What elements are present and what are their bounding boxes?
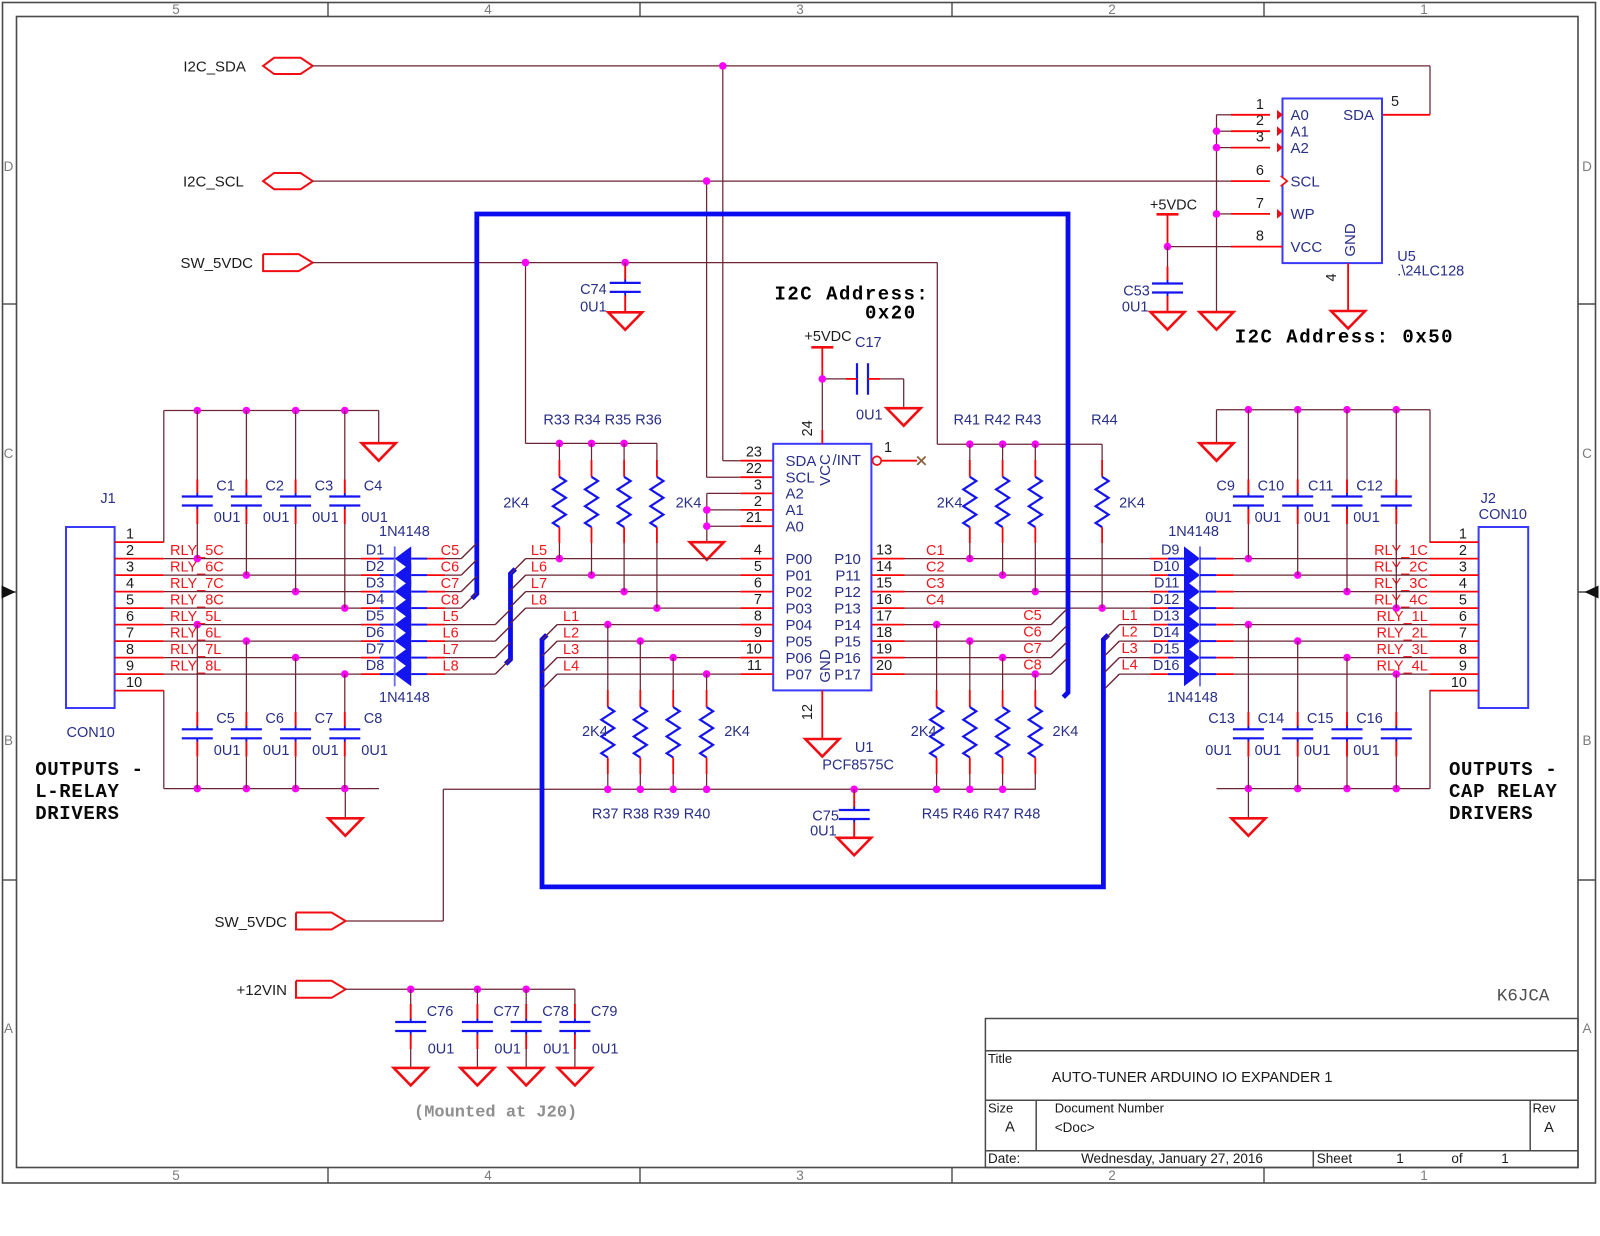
svg-text:9: 9 xyxy=(754,625,762,641)
ground C77 xyxy=(460,1068,494,1086)
svg-text:3: 3 xyxy=(126,560,134,576)
svg-text:D2: D2 xyxy=(366,559,385,575)
svg-text:P12: P12 xyxy=(834,584,861,601)
resistor R40 2K4 xyxy=(700,674,713,789)
svg-text:2K4: 2K4 xyxy=(1053,724,1079,740)
wire net L1 (bus to diode D13) xyxy=(1105,625,1150,640)
svg-text:C: C xyxy=(1582,446,1592,461)
svg-text:0U1: 0U1 xyxy=(263,743,290,759)
wire net RLY_2C row (diode D10 to J2 pin 3) xyxy=(1234,571,1479,579)
svg-text:C3: C3 xyxy=(315,478,334,494)
svg-text:RLY_3C: RLY_3C xyxy=(1374,576,1428,592)
svg-text:3: 3 xyxy=(796,2,804,17)
wire net RLY_3C row (diode D11 to J2 pin 4) xyxy=(1234,588,1479,596)
resistor R47 2K4 xyxy=(996,658,1009,790)
svg-text:6: 6 xyxy=(1256,163,1264,179)
svg-text:0U1: 0U1 xyxy=(1304,510,1331,526)
svg-text:0U1: 0U1 xyxy=(312,743,339,759)
svg-text:14: 14 xyxy=(876,559,892,575)
svg-text:18: 18 xyxy=(876,625,892,641)
op-amp U5 24LC128 EEPROM body xyxy=(1283,99,1383,264)
ground C74 xyxy=(608,312,642,330)
svg-text:L1: L1 xyxy=(563,609,579,625)
net label L7 (chip side) xyxy=(531,576,547,592)
wire net L3 (bus to U1 P06) xyxy=(542,654,773,673)
label D10 xyxy=(1153,559,1180,575)
svg-text:C: C xyxy=(4,446,14,461)
svg-text:CAP RELAY: CAP RELAY xyxy=(1449,781,1557,803)
svg-text:/INT: /INT xyxy=(833,452,861,469)
svg-text:3: 3 xyxy=(1459,560,1467,576)
svg-text:0U1: 0U1 xyxy=(312,510,339,526)
svg-text:4: 4 xyxy=(1324,273,1340,281)
svg-text:P16: P16 xyxy=(834,650,861,667)
svg-text:3: 3 xyxy=(754,477,762,493)
svg-text:C5: C5 xyxy=(216,711,235,727)
svg-text:C17: C17 xyxy=(855,335,882,351)
net label RLY_1C xyxy=(1374,543,1428,559)
svg-text:C12: C12 xyxy=(1356,478,1383,494)
svg-text:0U1: 0U1 xyxy=(1205,743,1232,759)
svg-text:0U1: 0U1 xyxy=(1353,743,1380,759)
capacitor C6 xyxy=(231,641,290,789)
svg-text:L8: L8 xyxy=(443,658,459,674)
resistor R38 2K4 xyxy=(634,641,647,789)
svg-text:A1: A1 xyxy=(1291,123,1309,140)
U5 GND pin 4 lead xyxy=(1347,263,1349,311)
svg-text:10: 10 xyxy=(126,675,142,691)
svg-text:1N4148: 1N4148 xyxy=(379,690,430,706)
svg-text:+12VIN: +12VIN xyxy=(237,982,287,999)
svg-text:22: 22 xyxy=(746,461,762,477)
svg-text:DRIVERS: DRIVERS xyxy=(1449,803,1533,825)
svg-text:Rev: Rev xyxy=(1533,1101,1557,1116)
svg-text:5: 5 xyxy=(754,559,762,575)
connector J1 CON10 body xyxy=(66,527,115,708)
label D12 xyxy=(1153,592,1180,608)
label D11 xyxy=(1154,576,1180,592)
label 1N4148 (right bottom) xyxy=(1167,690,1218,706)
diode D12 1N4148 xyxy=(1150,596,1234,620)
svg-text:L3: L3 xyxy=(563,642,579,658)
net label L8 (left) xyxy=(443,658,459,674)
zone column numbers top xyxy=(172,2,1428,17)
svg-text:1N4148: 1N4148 xyxy=(1168,524,1219,540)
wire net RLY_4C row (diode D12 to J2 pin 5) xyxy=(1234,604,1479,612)
svg-text:D16: D16 xyxy=(1153,658,1180,674)
svg-text:C7: C7 xyxy=(315,711,334,727)
ground C75 xyxy=(837,838,871,856)
wire net L4 (bus to diode D16) xyxy=(1105,674,1150,689)
label D13 xyxy=(1153,609,1180,625)
svg-text:A0: A0 xyxy=(786,518,804,535)
port I2C_SCL (bidirectional) xyxy=(263,173,313,189)
svg-text:1: 1 xyxy=(1501,1151,1509,1166)
svg-text:Size: Size xyxy=(988,1101,1013,1116)
resistor R37 2K4 xyxy=(601,625,614,790)
svg-text:7: 7 xyxy=(1256,196,1264,212)
svg-text:0U1: 0U1 xyxy=(214,743,241,759)
svg-text:C77: C77 xyxy=(493,1004,520,1020)
svg-text:24: 24 xyxy=(800,420,816,436)
svg-text:SDA: SDA xyxy=(786,453,817,470)
svg-text:2K4: 2K4 xyxy=(724,724,750,740)
wire net C5 (U1 P14 to bus) xyxy=(871,609,1066,628)
capacitor C11 xyxy=(1304,410,1363,592)
svg-text:C76: C76 xyxy=(427,1004,454,1020)
net label L6 (chip side) xyxy=(531,559,547,575)
svg-text:RLY_5L: RLY_5L xyxy=(170,609,221,625)
svg-text:C8: C8 xyxy=(441,592,460,608)
wire net C7 (diode D3 to bus) xyxy=(445,576,477,591)
net label C6 (left) xyxy=(441,559,460,575)
text I2C Address: 0x20 xyxy=(775,284,930,325)
capacitor C15 xyxy=(1304,658,1363,789)
svg-text:16: 16 xyxy=(876,592,892,608)
svg-text:SDA: SDA xyxy=(1343,107,1374,124)
label I2C_SCL xyxy=(183,174,244,191)
svg-text:C1: C1 xyxy=(216,478,235,494)
label D14 xyxy=(1153,625,1180,641)
svg-text:9: 9 xyxy=(1459,659,1467,675)
svg-text:4: 4 xyxy=(126,576,134,592)
diode D1 1N4148 xyxy=(361,546,445,570)
label D5 xyxy=(366,609,385,625)
capacitor C76 xyxy=(395,989,454,1068)
wire net C6 (diode D2 to bus) xyxy=(445,560,477,575)
svg-text:8: 8 xyxy=(1459,642,1467,658)
svg-text:5: 5 xyxy=(172,2,180,17)
capacitor C16 xyxy=(1353,674,1412,789)
resistor group label R41 R42 R43 xyxy=(954,413,1042,429)
capacitor C1 xyxy=(182,411,241,559)
net label RLY_8C xyxy=(170,592,224,608)
svg-text:C15: C15 xyxy=(1307,711,1334,727)
svg-text:U1: U1 xyxy=(855,740,874,756)
zone tick marks bottom xyxy=(328,1168,1264,1184)
svg-text:P00: P00 xyxy=(786,551,813,568)
port +12VIN (output) xyxy=(296,981,346,998)
resistor R35 2K4 xyxy=(618,443,631,591)
net label C6 (right) xyxy=(1023,625,1042,641)
svg-text:P13: P13 xyxy=(834,600,861,617)
svg-text:A2: A2 xyxy=(786,486,804,503)
ground C76 xyxy=(394,1068,428,1086)
net label L2 (right) xyxy=(1122,625,1138,641)
svg-text:C2: C2 xyxy=(926,559,945,575)
resistor group label R33 R34 R35 R36 xyxy=(543,413,662,429)
capacitor C78 xyxy=(511,989,570,1068)
capacitor C5 xyxy=(182,625,241,789)
svg-text:RLY_7C: RLY_7C xyxy=(170,576,224,592)
wire net L2 (bus to diode D14) xyxy=(1105,641,1150,656)
wire net +5VDC to U1 VCC pin 24 xyxy=(819,347,847,444)
resistor R39 2K4 xyxy=(667,658,680,790)
net label L1 (right) xyxy=(1122,608,1138,624)
wire net RLY_1L row (diode D13 to J2 pin 6) xyxy=(1234,621,1479,629)
capacitor C4 xyxy=(329,411,388,609)
svg-text:C13: C13 xyxy=(1208,711,1235,727)
capacitor C17 xyxy=(846,335,904,423)
svg-text:L4: L4 xyxy=(563,658,579,674)
svg-text:0U1: 0U1 xyxy=(1122,300,1149,316)
J1 pin numbers xyxy=(126,527,142,692)
net label RLY_2L xyxy=(1376,625,1427,641)
svg-text:2: 2 xyxy=(126,543,134,559)
net label C3 xyxy=(926,576,945,592)
diode D6 1N4148 xyxy=(361,629,445,653)
svg-text:7: 7 xyxy=(126,626,134,642)
wire net J1 pin 1 to top cap rail xyxy=(115,407,379,542)
wire net L3 (bus to diode D15) xyxy=(1105,658,1150,673)
value label 2K4 (R36 group) xyxy=(676,496,702,512)
svg-text:10: 10 xyxy=(746,642,762,658)
U1 /INT pin 1 bubble and no-connect X xyxy=(873,456,926,465)
svg-text:C5: C5 xyxy=(441,543,460,559)
net label RLY_2C xyxy=(1374,559,1428,575)
svg-text:5: 5 xyxy=(172,1168,180,1183)
svg-text:C1: C1 xyxy=(926,543,945,559)
svg-text:D: D xyxy=(4,159,14,174)
svg-text:C14: C14 xyxy=(1258,711,1285,727)
value label 2K4 (R37 group) xyxy=(582,724,608,740)
ground J2 bottom rail xyxy=(1231,818,1265,836)
svg-text:PCF8575C: PCF8575C xyxy=(822,758,894,774)
svg-text:CON10: CON10 xyxy=(67,725,115,741)
author mark K6JCA xyxy=(1497,987,1550,1007)
svg-text:L6: L6 xyxy=(531,559,547,575)
net label RLY_5L xyxy=(170,609,221,625)
svg-text:P06: P06 xyxy=(786,650,813,667)
svg-text:C78: C78 xyxy=(542,1004,569,1020)
svg-text:C2: C2 xyxy=(265,478,284,494)
svg-text:AUTO-TUNER ARDUINO IO EXPANDER: AUTO-TUNER ARDUINO IO EXPANDER 1 xyxy=(1052,1070,1333,1086)
svg-text:P14: P14 xyxy=(834,617,861,634)
svg-text:RLY_6L: RLY_6L xyxy=(170,625,221,641)
svg-text:P11: P11 xyxy=(835,567,861,584)
net label L5 (chip side) xyxy=(531,543,547,559)
svg-text:D3: D3 xyxy=(366,576,385,592)
svg-text:1: 1 xyxy=(1420,2,1428,17)
wire net L8 (bus to U1 P03) xyxy=(511,604,774,623)
net label L4 (right) xyxy=(1122,658,1138,674)
resistor label R44 xyxy=(1091,413,1118,429)
svg-text:5: 5 xyxy=(1391,94,1399,110)
ground C78 xyxy=(509,1068,543,1086)
net label L1 (chip side) xyxy=(563,609,579,625)
wire net L5 (diode D5 to bus) xyxy=(445,609,511,624)
svg-text:9: 9 xyxy=(126,659,134,675)
svg-text:<Doc>: <Doc> xyxy=(1055,1120,1095,1135)
svg-text:+5VDC: +5VDC xyxy=(1150,198,1197,214)
U1 pin numbers xyxy=(746,420,892,720)
svg-text:2: 2 xyxy=(1108,1168,1116,1183)
text OUTPUTS - L-RELAY DRIVERS xyxy=(35,759,143,825)
svg-text:WP: WP xyxy=(1291,206,1315,223)
wire net A2 A1 A0 to ground (I2C address 0x20) xyxy=(703,493,773,542)
net label L4 (chip side) xyxy=(563,658,579,674)
net label RLY_4C xyxy=(1374,592,1428,608)
label D1 xyxy=(366,543,385,559)
svg-text:0U1: 0U1 xyxy=(856,408,883,424)
svg-text:C10: C10 xyxy=(1258,478,1285,494)
net label C5 (right) xyxy=(1023,608,1042,624)
svg-text:0U1: 0U1 xyxy=(592,1042,619,1058)
wire net L7 (bus to U1 P02) xyxy=(511,588,774,607)
resistor R42 2K4 xyxy=(996,444,1009,575)
capacitor C13 xyxy=(1205,625,1264,789)
capacitor C74 xyxy=(580,263,641,316)
svg-text:B: B xyxy=(4,733,13,748)
svg-text:L2: L2 xyxy=(1122,625,1138,641)
svg-text:D13: D13 xyxy=(1153,609,1180,625)
svg-text:1: 1 xyxy=(884,440,892,456)
wire net RLY_4L row (diode D16 to J2 pin 9) xyxy=(1234,670,1479,678)
svg-text:L5: L5 xyxy=(531,543,547,559)
diode D8 1N4148 xyxy=(361,662,445,686)
ground C79 xyxy=(558,1068,592,1086)
wire net RLY_7L row (J1 pin 8 to diode D7) xyxy=(115,654,361,662)
diode D3 1N4148 xyxy=(361,579,445,603)
zone column numbers bottom xyxy=(172,1168,1428,1183)
svg-text:6: 6 xyxy=(1459,609,1467,625)
svg-text:20: 20 xyxy=(876,658,892,674)
svg-text:I2C Address: 0x50: I2C Address: 0x50 xyxy=(1235,327,1454,349)
svg-text:(Mounted at J20): (Mounted at J20) xyxy=(414,1104,577,1123)
wire net C8 (diode D4 to bus) xyxy=(445,593,477,608)
svg-text:of: of xyxy=(1451,1151,1463,1166)
svg-text:K6JCA: K6JCA xyxy=(1497,987,1550,1007)
svg-text:2K4: 2K4 xyxy=(676,496,702,512)
bus L1-L4 (left riser, bottom bar, right riser) xyxy=(542,635,1108,887)
svg-text:2K4: 2K4 xyxy=(582,724,608,740)
svg-text:RLY_8L: RLY_8L xyxy=(170,658,221,674)
resistor R33 2K4 xyxy=(553,443,566,558)
wire net L2 (bus to U1 P05) xyxy=(542,637,773,656)
net label RLY_4L xyxy=(1376,658,1427,674)
wire net RLY_5C row (J1 pin 2 to diode D1) xyxy=(115,555,361,563)
label SW_5VDC (top) xyxy=(180,255,253,272)
svg-text:L7: L7 xyxy=(531,576,547,592)
sheet alignment arrow right xyxy=(1585,586,1599,599)
U5 pin numbers xyxy=(1256,94,1399,282)
svg-text:10: 10 xyxy=(1451,675,1467,691)
net label RLY_8L xyxy=(170,658,221,674)
svg-text:C79: C79 xyxy=(591,1004,618,1020)
svg-text:RLY_6C: RLY_6C xyxy=(170,559,224,575)
svg-text:RLY_4C: RLY_4C xyxy=(1374,592,1428,608)
svg-text:0U1: 0U1 xyxy=(543,1042,570,1058)
svg-text:L8: L8 xyxy=(531,592,547,608)
svg-text:8: 8 xyxy=(126,642,134,658)
svg-text:2K4: 2K4 xyxy=(1119,496,1145,512)
net label L6 (left) xyxy=(443,625,459,641)
svg-text:P04: P04 xyxy=(786,617,813,634)
ground U5 address pins xyxy=(1200,312,1234,330)
zone tick marks top xyxy=(328,3,1264,17)
value label 2K4 (R40 group) xyxy=(724,724,750,740)
svg-text:0x20: 0x20 xyxy=(865,303,917,325)
svg-text:D4: D4 xyxy=(366,592,385,608)
connector J2 CON10 body xyxy=(1479,527,1529,708)
svg-text:P10: P10 xyxy=(834,551,861,568)
svg-text:Title: Title xyxy=(988,1051,1012,1066)
svg-text:OUTPUTS -: OUTPUTS - xyxy=(1449,759,1557,781)
svg-text:4: 4 xyxy=(754,543,762,559)
wire net RLY_1C row (diode D9 to J2 pin 2) xyxy=(1234,555,1479,563)
svg-text:RLY_1L: RLY_1L xyxy=(1376,609,1427,625)
svg-text:RLY_8C: RLY_8C xyxy=(170,592,224,608)
svg-text:0U1: 0U1 xyxy=(1205,510,1232,526)
net label RLY_3L xyxy=(1376,642,1427,658)
svg-text:3: 3 xyxy=(796,1168,804,1183)
capacitor C9 xyxy=(1205,410,1264,559)
zone tick marks left xyxy=(3,304,17,880)
net label C5 (left) xyxy=(441,543,460,559)
ground C53 xyxy=(1151,312,1185,330)
svg-text:0U1: 0U1 xyxy=(361,743,388,759)
capacitor C3 xyxy=(280,411,339,592)
svg-text:VCC: VCC xyxy=(1291,239,1323,256)
svg-text:C5: C5 xyxy=(1023,608,1042,624)
net label C7 (left) xyxy=(441,576,460,592)
wire net U5 address select (A0 A1 A2 WP to ground) xyxy=(1213,115,1270,312)
svg-text:0U1: 0U1 xyxy=(494,1042,521,1058)
svg-text:P03: P03 xyxy=(786,600,813,617)
svg-text:SW_5VDC: SW_5VDC xyxy=(180,255,253,272)
svg-text:VCC: VCC xyxy=(817,454,834,486)
text (Mounted at J20) xyxy=(414,1104,577,1123)
resistor R46 2K4 xyxy=(963,641,976,789)
svg-text:L1: L1 xyxy=(1122,608,1138,624)
svg-text:2K4: 2K4 xyxy=(937,496,963,512)
net label C7 (right) xyxy=(1023,641,1042,657)
label 1N4148 (left top) xyxy=(379,524,430,540)
label D8 xyxy=(366,658,385,674)
svg-text:8: 8 xyxy=(754,609,762,625)
wire net RLY_6L row (J1 pin 7 to diode D6) xyxy=(115,637,361,645)
net label L2 (chip side) xyxy=(563,625,579,641)
zone tick marks right xyxy=(1578,304,1596,880)
svg-text:15: 15 xyxy=(876,576,892,592)
ground J1 top rail xyxy=(362,443,396,461)
svg-text:0U1: 0U1 xyxy=(428,1042,455,1058)
wire net RLY_6C row (J1 pin 3 to diode D2) xyxy=(115,571,361,579)
value label 2K4 (R33 group) xyxy=(503,496,529,512)
net label L3 (chip side) xyxy=(563,642,579,658)
svg-text:J1: J1 xyxy=(100,491,115,507)
svg-text:J2: J2 xyxy=(1481,491,1496,507)
diode D13 1N4148 xyxy=(1150,612,1234,636)
svg-text:A: A xyxy=(1005,1120,1015,1136)
label D15 xyxy=(1153,642,1180,658)
ground U5 GND xyxy=(1331,311,1365,329)
bus C5-C8 (left riser, top bar, right riser) xyxy=(472,214,1068,697)
ground U1 GND xyxy=(805,739,839,757)
ground J2 top rail xyxy=(1200,443,1234,461)
value label 2K4 (R48 group) xyxy=(1053,724,1079,740)
svg-text:D11: D11 xyxy=(1154,576,1180,592)
svg-text:2K4: 2K4 xyxy=(503,496,529,512)
capacitor C7 xyxy=(280,658,339,789)
svg-text:7: 7 xyxy=(1459,626,1467,642)
wire net J1 pin 10 to bottom cap rail xyxy=(115,691,379,819)
wire net SW_5VDC bottom rail (resistor commons) xyxy=(346,786,1036,922)
value label 2K4 (R41 group) xyxy=(937,496,963,512)
capacitor C12 xyxy=(1353,410,1412,608)
net label C1 xyxy=(926,543,945,559)
net label L8 (chip side) xyxy=(531,592,547,608)
